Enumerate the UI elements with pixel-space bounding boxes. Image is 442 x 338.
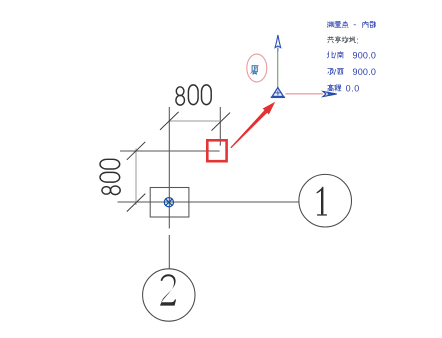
svg-text:900.0: 900.0 xyxy=(353,51,377,61)
svg-text:900.0: 900.0 xyxy=(353,67,377,77)
svg-text:/: / xyxy=(334,51,337,61)
svg-text:-: - xyxy=(353,19,356,29)
svg-text:/: / xyxy=(334,67,337,77)
svg-text:0.0: 0.0 xyxy=(346,84,360,94)
svg-text::: : xyxy=(356,35,359,45)
